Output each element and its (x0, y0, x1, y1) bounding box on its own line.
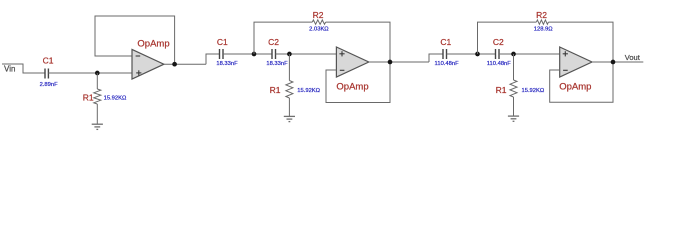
svg-text:128.9Ω: 128.9Ω (534, 26, 554, 32)
node C1-C2 junction (stage 2) (252, 52, 257, 57)
wire op-amp 3 output to Vout (592, 61, 643, 63)
wire inverting feedback loop (stage 3) (550, 62, 613, 102)
svg-text:R2: R2 (313, 10, 324, 20)
node C1-C2 junction (stage 3) (475, 52, 480, 57)
wire step up to stage 2 (206, 54, 220, 64)
ground (stage 1) (92, 124, 103, 129)
svg-text:Vout: Vout (625, 53, 641, 62)
svg-text:C1: C1 (440, 37, 451, 47)
svg-text:18.33nF: 18.33nF (216, 61, 238, 67)
capacitor C1 (stage 3) (443, 49, 447, 59)
wire step up to stage 3 (429, 54, 443, 62)
capacitor C2 (stage 2) (272, 49, 276, 59)
op-amp U2 (336, 47, 368, 92)
wire node to R2 (stage 2) (254, 22, 312, 54)
node output junction (stage 2) (388, 60, 393, 65)
svg-text:C1: C1 (217, 37, 228, 47)
op-amp U1 (132, 38, 170, 79)
resistor R1 (stage 1) (94, 73, 101, 124)
svg-text:R2: R2 (536, 10, 547, 20)
svg-text:OpAmp: OpAmp (336, 81, 368, 92)
svg-text:R1: R1 (496, 85, 507, 95)
svg-text:2.89nF: 2.89nF (40, 82, 59, 88)
svg-text:OpAmp: OpAmp (137, 38, 169, 49)
wire C2 to + input (stage 2) (276, 53, 337, 55)
svg-text:2.03KΩ: 2.03KΩ (309, 26, 329, 32)
op-amp U3 (559, 47, 592, 92)
resistor R1 (stage 2) (286, 54, 293, 116)
svg-text:18.33nF: 18.33nF (266, 61, 288, 67)
svg-text:110.48nF: 110.48nF (487, 61, 512, 67)
svg-text:C2: C2 (268, 37, 279, 47)
wire R2 to output (stage 3) (548, 22, 613, 62)
node output junction (stage 3) (611, 60, 616, 65)
capacitor C2 (stage 3) (496, 49, 500, 59)
svg-text:15.92KΩ: 15.92KΩ (104, 96, 127, 102)
wire R2 to output (stage 2) (326, 22, 390, 62)
wire C1 to C2 (stage 2) (223, 53, 272, 55)
node C2/R1 junction (stage 2) (287, 52, 292, 57)
wire feedback loop to inverting input (stage 1) (95, 16, 175, 64)
svg-text:C1: C1 (43, 55, 54, 65)
svg-text:R1: R1 (270, 85, 281, 95)
wire op-amp 2 output (369, 61, 429, 63)
svg-text:OpAmp: OpAmp (559, 81, 591, 92)
node junction C1/R1 (95, 71, 100, 76)
wire C1 to op-amp + input (48, 72, 132, 74)
node C2/R1 junction (stage 3) (511, 52, 516, 57)
resistor R1 (stage 3) (510, 54, 517, 116)
svg-text:15.92KΩ: 15.92KΩ (297, 88, 320, 94)
wire op-amp 1 output (164, 63, 206, 65)
svg-text:15.92KΩ: 15.92KΩ (522, 88, 545, 94)
svg-text:R1: R1 (83, 93, 94, 103)
wire inverting feedback loop (stage 2) (326, 62, 390, 103)
svg-text:110.48nF: 110.48nF (435, 61, 460, 67)
resistor R2 (stage 2) (312, 20, 325, 24)
svg-text:Vin: Vin (4, 64, 15, 73)
wire C1 to C2 (stage 3) (447, 53, 496, 55)
ground (stage 3) (508, 116, 519, 121)
resistor R2 (stage 3) (536, 20, 548, 24)
capacitor C1 (stage 2) (220, 49, 224, 59)
node output junction (stage 1) (172, 62, 177, 67)
ground (stage 2) (284, 116, 295, 121)
wire C2 to + input (stage 3) (499, 53, 560, 55)
capacitor C1 (stage 1) (45, 69, 48, 79)
svg-text:C2: C2 (493, 37, 504, 47)
wire node to R2 (stage 3) (478, 22, 537, 54)
wire Vin input lead (2, 64, 45, 73)
